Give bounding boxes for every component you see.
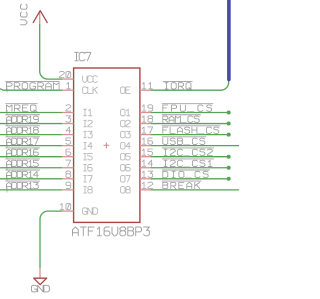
pin 7 name I6 bbox=[84, 165, 93, 172]
pin 14 stub bbox=[140, 167, 151, 169]
net label ADDR18 bbox=[5, 126, 40, 134]
pin 8 stub bbox=[62, 178, 74, 180]
pin 11 stub bbox=[140, 89, 151, 91]
IC IC7 value ATF16V8BP3 bbox=[73, 227, 150, 236]
net label ADDR17 bbox=[5, 137, 40, 145]
junction RAM_CS bbox=[227, 122, 231, 126]
pin 11 number bbox=[142, 83, 152, 89]
wire ADDR19 net bbox=[0, 123, 62, 125]
pin 9 number bbox=[66, 182, 71, 188]
pin 10 number bbox=[60, 203, 70, 209]
ground symbol triangle bbox=[34, 278, 47, 285]
pin 5 number bbox=[66, 138, 71, 144]
pin 14 name O6 bbox=[121, 165, 131, 172]
wire ADDR18 net bbox=[0, 134, 62, 136]
wire ADDR14 net bbox=[0, 178, 62, 180]
power VCC symbol pin bbox=[39, 12, 41, 25]
wire DIO_CS net bbox=[151, 178, 229, 180]
pin 8 number bbox=[66, 171, 71, 177]
wire GND net (pin 10 to ground symbol) bbox=[40, 211, 62, 268]
junction I2C_CS1 bbox=[227, 166, 231, 170]
wire ADDR15 net bbox=[0, 167, 62, 169]
wire ADDR13 net bbox=[0, 189, 62, 191]
pin 5 stub bbox=[62, 145, 74, 147]
net label IORQ bbox=[163, 81, 193, 89]
ground symbol text bbox=[32, 285, 50, 292]
net label MREQ bbox=[5, 104, 37, 112]
wire RAM_CS net bbox=[151, 123, 229, 125]
pin 6 number bbox=[66, 149, 71, 155]
pin 16 stub bbox=[140, 145, 151, 147]
pin 18 stub bbox=[140, 123, 151, 125]
pin 9 name I8 bbox=[84, 187, 93, 194]
pin 18 name O2 bbox=[121, 120, 131, 127]
pin 3 name I2 bbox=[84, 120, 93, 127]
net label I2C_CS1 bbox=[162, 159, 214, 167]
net label RAM_CS bbox=[162, 115, 201, 123]
pin 12 name O8 bbox=[121, 187, 131, 194]
net label ADDR15 bbox=[5, 159, 40, 167]
pin 14 number bbox=[142, 160, 152, 166]
pin 15 name O5 bbox=[121, 153, 131, 160]
junction DIO_CS bbox=[227, 177, 231, 181]
node PROGRAM label origin cross bbox=[4, 88, 9, 93]
pin 19 name O1 bbox=[121, 109, 130, 116]
net label FPU_CS bbox=[162, 104, 214, 112]
wire FPU_CS net bbox=[151, 112, 229, 114]
net label DIO_CS bbox=[162, 170, 210, 178]
net label ADDR14 bbox=[5, 170, 40, 178]
net label ADDR13 bbox=[5, 181, 40, 189]
pin 13 stub bbox=[140, 178, 151, 180]
net label FLASH_CS bbox=[162, 126, 221, 134]
pin 19 stub bbox=[140, 112, 151, 114]
pin 16 name O4 bbox=[121, 142, 131, 149]
pin 8 name I7 bbox=[84, 176, 93, 183]
pin 5 name I4 bbox=[84, 142, 93, 149]
pin 16 number bbox=[142, 138, 152, 144]
pin 6 name I5 bbox=[84, 153, 93, 160]
node ADDR14 label origin cross bbox=[4, 176, 9, 181]
node MREQ label origin cross bbox=[4, 110, 9, 115]
wire I2C_CS2 net bbox=[151, 156, 229, 158]
wire MREQ net bbox=[0, 112, 62, 114]
wire ADDR16 net bbox=[0, 156, 62, 158]
pin 15 stub bbox=[140, 156, 151, 158]
net label BREAK bbox=[162, 181, 202, 189]
ground symbol pin bbox=[39, 268, 41, 278]
pin 6 stub bbox=[62, 156, 74, 158]
node ADDR16 label origin cross bbox=[4, 154, 9, 159]
pin 2 name I1 bbox=[84, 109, 92, 116]
pin 7 number bbox=[66, 160, 71, 166]
node ADDR15 label origin cross bbox=[4, 165, 9, 170]
pin 1 stub bbox=[62, 89, 74, 91]
pin 3 stub bbox=[62, 123, 74, 125]
pin 3 number bbox=[66, 116, 71, 122]
bus IORQ riser (blue) bbox=[227, 0, 231, 79]
pin 9 stub bbox=[62, 189, 74, 191]
pin 2 number bbox=[66, 105, 71, 111]
pin 13 name O7 bbox=[121, 176, 131, 183]
wire ADDR17 net bbox=[0, 145, 62, 147]
IC IC7 body (ATF16V8) bbox=[74, 68, 140, 222]
pin 4 stub bbox=[62, 134, 74, 136]
wire USB_CS net bbox=[151, 145, 240, 147]
wire I2C_CS1 net bbox=[151, 167, 229, 169]
IC IC7 origin cross bbox=[104, 142, 110, 148]
power VCC symbol arrow bbox=[33, 11, 47, 23]
pin 4 number bbox=[66, 127, 71, 133]
node ADDR17 label origin cross bbox=[4, 143, 9, 148]
wire BREAK net bbox=[151, 189, 240, 191]
node ADDR19 label origin cross bbox=[4, 121, 9, 126]
pin 2 stub bbox=[62, 112, 74, 114]
net label ADDR19 bbox=[5, 115, 40, 123]
pin 13 number bbox=[142, 171, 152, 177]
node ADDR18 label origin cross bbox=[4, 132, 9, 137]
pin 20 stub bbox=[62, 78, 74, 80]
pin 19 number bbox=[142, 105, 152, 111]
junction I2C_CS2 bbox=[227, 155, 231, 159]
pin 20 name VCC bbox=[83, 76, 98, 83]
pin 12 number bbox=[142, 182, 152, 188]
junction FLASH_CS bbox=[227, 133, 231, 137]
pin 12 stub bbox=[140, 189, 151, 191]
pin 15 number bbox=[142, 149, 152, 155]
wire FLASH_CS net bbox=[151, 134, 229, 136]
pin 17 number bbox=[142, 127, 152, 133]
net label USB_CS bbox=[162, 137, 207, 145]
net label I2C_CS2 bbox=[162, 148, 214, 156]
wire PROGRAM net bbox=[0, 88, 62, 90]
pin 17 stub bbox=[140, 134, 151, 136]
node ADDR13 label origin cross bbox=[4, 187, 9, 192]
IC IC7 reference designator bbox=[75, 52, 91, 60]
power VCC symbol text (rotated) bbox=[21, 4, 28, 25]
pin 11 name OE bbox=[121, 87, 131, 94]
pin 18 number bbox=[142, 116, 152, 122]
pin 4 name I3 bbox=[84, 131, 93, 138]
pin 7 stub bbox=[62, 167, 74, 169]
pin 1 name CLK bbox=[83, 87, 98, 94]
net label PROGRAM bbox=[5, 81, 59, 89]
pin 10 name GND bbox=[83, 208, 98, 215]
wire IORQ net bbox=[151, 79, 229, 90]
net label ADDR16 bbox=[5, 148, 40, 156]
pin 10 stub bbox=[62, 210, 74, 212]
wire VCC net (pin 20 to VCC symbol) bbox=[40, 24, 62, 79]
pin 20 number bbox=[59, 71, 70, 77]
pin 1 number bbox=[67, 83, 71, 89]
junction FPU_CS bbox=[227, 111, 231, 115]
pin 17 name O3 bbox=[121, 131, 131, 138]
